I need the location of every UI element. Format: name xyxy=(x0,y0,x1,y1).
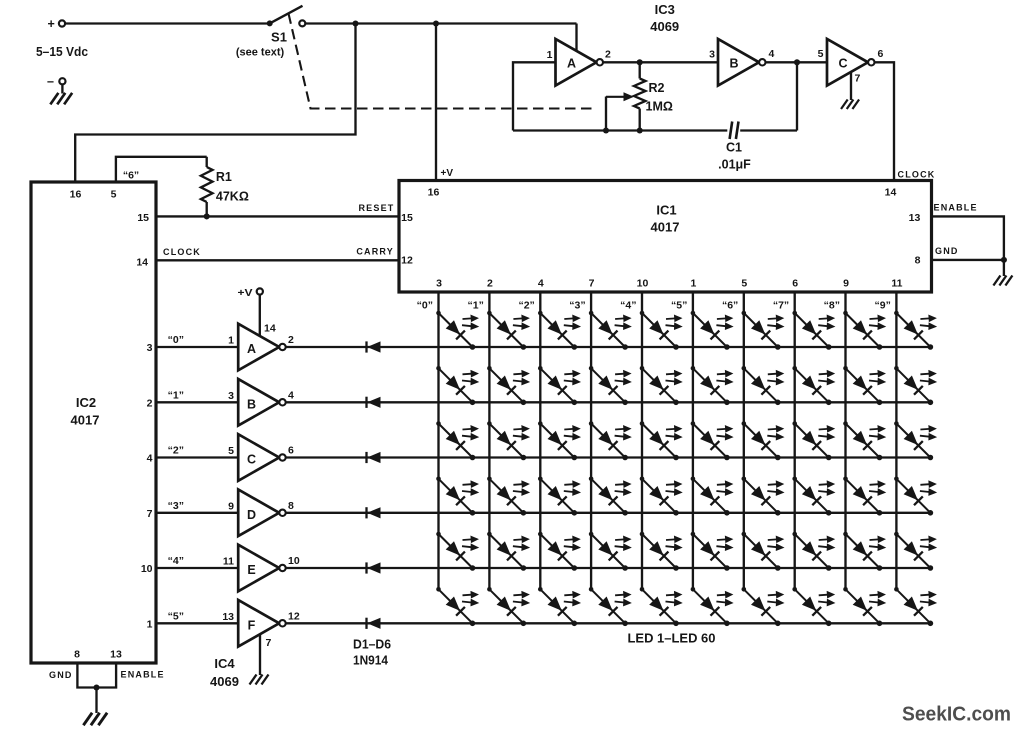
svg-text:RESET: RESET xyxy=(358,203,394,213)
+V terminal (IC4 pin 14) xyxy=(257,288,263,294)
LED 29 (col 8, row C) xyxy=(843,421,885,460)
wire IC2 pin5 to R1 xyxy=(116,157,207,182)
wire IC2 pin 1 to inverter U4F xyxy=(156,622,238,624)
LED 7 (col 6, row A) xyxy=(742,311,784,350)
LED 40 (col 9, row D) xyxy=(894,477,936,516)
wire to IC2 pin 16 xyxy=(75,24,355,183)
LED 20 (col 9, row B) xyxy=(894,366,936,405)
svg-text:15: 15 xyxy=(401,212,413,224)
wire column ‘0’ (IC1 output) xyxy=(437,292,439,589)
svg-text:A: A xyxy=(247,342,256,356)
LED 6 (col 5, row A) xyxy=(691,311,733,350)
LED 59 (col 8, row F) xyxy=(843,587,885,626)
LED 21 (col 0, row C) xyxy=(436,421,478,460)
svg-text:C: C xyxy=(838,56,847,70)
wire column ‘1’ (IC1 output) xyxy=(488,292,490,589)
row wire B (inverter out through diode to LED row) xyxy=(286,401,931,403)
svg-text:1: 1 xyxy=(547,49,553,61)
LED 3 (col 2, row A) xyxy=(538,311,580,350)
svg-text:IC2: IC2 xyxy=(76,395,96,410)
svg-text:“4”: “4” xyxy=(620,300,636,312)
svg-text:14: 14 xyxy=(136,257,148,269)
IC U1 (IC1 4017) body xyxy=(399,181,932,293)
wire CARRY/CLOCK (IC2 pin14 - IC1 pin12) xyxy=(156,259,399,261)
LED 22 (col 1, row C) xyxy=(487,421,529,460)
svg-text:“8”: “8” xyxy=(824,300,840,312)
ground U4F pin 7 xyxy=(259,635,261,675)
svg-text:“1”: “1” xyxy=(468,300,484,312)
wire column ‘5’ (IC1 output) xyxy=(692,292,694,589)
inverter U3B xyxy=(718,39,766,86)
svg-text:4017: 4017 xyxy=(71,413,100,428)
svg-text:14: 14 xyxy=(264,323,276,335)
wire column ‘2’ (IC1 output) xyxy=(539,292,541,589)
svg-text:10: 10 xyxy=(637,278,649,290)
svg-text:4069: 4069 xyxy=(210,674,239,689)
LED 31 (col 0, row D) xyxy=(436,477,478,516)
inverter U3A xyxy=(556,39,604,86)
svg-text:3: 3 xyxy=(228,390,234,402)
LED 14 (col 3, row B) xyxy=(589,366,631,405)
junction IC2 ground xyxy=(93,684,99,690)
svg-text:S1: S1 xyxy=(271,30,287,45)
wire U3A input xyxy=(513,62,556,130)
LED 57 (col 6, row F) xyxy=(742,587,784,626)
switch S1 xyxy=(267,20,273,26)
LED 19 (col 8, row B) xyxy=(843,366,885,405)
LED 15 (col 4, row B) xyxy=(640,366,682,405)
LED 18 (col 7, row B) xyxy=(792,366,834,405)
svg-text:“7”: “7” xyxy=(773,300,789,312)
LED 51 (col 0, row F) xyxy=(436,587,478,626)
row wire E (inverter out through diode to LED row) xyxy=(286,567,931,569)
diode D5 xyxy=(367,562,381,573)
svg-text:2: 2 xyxy=(288,334,294,346)
svg-text:“2”: “2” xyxy=(168,445,184,457)
svg-text:11: 11 xyxy=(223,556,234,568)
svg-text:“5”: “5” xyxy=(671,300,687,312)
diode D4 xyxy=(367,507,381,518)
svg-text:IC4: IC4 xyxy=(214,656,235,671)
svg-text:CARRY: CARRY xyxy=(356,247,394,257)
svg-text:ENABLE: ENABLE xyxy=(121,670,165,680)
svg-text:7: 7 xyxy=(855,73,861,85)
svg-text:LED 1–LED 60: LED 1–LED 60 xyxy=(628,631,716,646)
svg-text:16: 16 xyxy=(70,189,82,201)
junction R2/feedback xyxy=(637,127,643,133)
feedback wire (oscillator) xyxy=(513,129,727,131)
diode D3 xyxy=(367,452,381,463)
LED 8 (col 7, row A) xyxy=(792,311,834,350)
row wire C (inverter out through diode to LED row) xyxy=(286,456,931,458)
svg-text:7: 7 xyxy=(589,278,595,290)
LED 10 (col 9, row A) xyxy=(894,311,936,350)
svg-text:+V: +V xyxy=(441,168,454,179)
junction R1/RESET wire xyxy=(204,213,210,219)
inverter U4B xyxy=(238,379,286,426)
battery + terminal xyxy=(59,20,65,26)
row wire F (inverter out through diode to LED row) xyxy=(286,622,931,624)
svg-text:+: + xyxy=(48,17,55,31)
LED 55 (col 4, row F) xyxy=(640,587,682,626)
svg-text:R1: R1 xyxy=(216,170,232,184)
wire IC2 pin 3 to inverter U4A xyxy=(156,346,238,348)
svg-text:16: 16 xyxy=(428,187,440,199)
svg-text:2: 2 xyxy=(487,278,493,290)
junction switch rail / IC2 supply xyxy=(352,20,358,26)
svg-text:5: 5 xyxy=(741,278,747,290)
wire +V to U4A xyxy=(259,295,261,337)
LED 45 (col 4, row E) xyxy=(640,532,682,571)
wire column ‘3’ (IC1 output) xyxy=(590,292,592,589)
LED 17 (col 6, row B) xyxy=(742,366,784,405)
svg-text:B: B xyxy=(247,397,256,411)
LED 24 (col 3, row C) xyxy=(589,421,631,460)
wire IC2 pin 7 to inverter U4D xyxy=(156,512,238,514)
svg-text:“0”: “0” xyxy=(417,300,433,312)
svg-text:3: 3 xyxy=(436,278,442,290)
svg-text:1: 1 xyxy=(690,278,696,290)
wire column ‘8’ (IC1 output) xyxy=(844,292,846,589)
LED 49 (col 8, row E) xyxy=(843,532,885,571)
svg-text:2: 2 xyxy=(605,49,611,61)
svg-text:4: 4 xyxy=(538,278,544,290)
svg-text:5: 5 xyxy=(818,48,824,60)
svg-text:7: 7 xyxy=(266,637,272,649)
resistor R2 xyxy=(639,62,641,78)
diode D6 xyxy=(367,618,381,629)
LED 12 (col 1, row B) xyxy=(487,366,529,405)
svg-text:“3”: “3” xyxy=(168,500,184,512)
wire IC2 pins 8,13 to ground xyxy=(77,663,116,688)
LED 58 (col 7, row F) xyxy=(792,587,834,626)
svg-text:14: 14 xyxy=(885,187,897,199)
LED 44 (col 3, row E) xyxy=(589,532,631,571)
svg-text:ENABLE: ENABLE xyxy=(934,203,978,213)
LED 50 (col 9, row E) xyxy=(894,532,936,571)
svg-text:+V: +V xyxy=(238,287,253,299)
mechanical link S1-R2 (dashed) xyxy=(289,14,595,109)
svg-text:4069: 4069 xyxy=(650,19,679,34)
wire switch to oscillator xyxy=(306,22,577,24)
svg-text:–: – xyxy=(47,75,54,89)
wire R2 wiper to feedback xyxy=(605,97,607,131)
wire column ‘6’ (IC1 output) xyxy=(743,292,745,589)
diode D1 xyxy=(367,341,381,352)
svg-text:“1”: “1” xyxy=(168,389,184,401)
svg-text:10: 10 xyxy=(288,555,300,567)
svg-text:“6”: “6” xyxy=(722,300,738,312)
LED 33 (col 2, row D) xyxy=(538,477,580,516)
svg-text:D: D xyxy=(247,508,256,522)
svg-text:CLOCK: CLOCK xyxy=(898,170,936,180)
svg-text:1MΩ: 1MΩ xyxy=(646,100,673,114)
LED 28 (col 7, row C) xyxy=(792,421,834,460)
svg-text:6: 6 xyxy=(288,445,294,457)
svg-text:(see text): (see text) xyxy=(236,47,285,59)
svg-text:8: 8 xyxy=(74,649,80,661)
svg-text:4: 4 xyxy=(147,453,153,465)
svg-text:13: 13 xyxy=(909,212,921,224)
wire IC2 pin 4 to inverter U4C xyxy=(156,456,238,458)
wire IC2 pin 10 to inverter U4E xyxy=(156,567,238,569)
LED 5 (col 4, row A) xyxy=(640,311,682,350)
capacitor C1 xyxy=(730,122,733,140)
svg-text:12: 12 xyxy=(288,611,300,623)
svg-text:5: 5 xyxy=(228,445,234,457)
LED 43 (col 2, row E) xyxy=(538,532,580,571)
wire ENABLE IC1 pin 13 xyxy=(932,216,1004,260)
LED 36 (col 5, row D) xyxy=(691,477,733,516)
inverter U3C xyxy=(827,39,875,86)
junction wiper/feedback xyxy=(603,127,609,133)
svg-text:3: 3 xyxy=(147,342,153,354)
LED 16 (col 5, row B) xyxy=(691,366,733,405)
LED 42 (col 1, row E) xyxy=(487,532,529,571)
LED 13 (col 2, row B) xyxy=(538,366,580,405)
svg-text:D1–D6: D1–D6 xyxy=(353,638,391,652)
svg-text:“0”: “0” xyxy=(168,334,184,346)
junction switch rail / IC1 supply xyxy=(433,20,439,26)
LED 53 (col 2, row F) xyxy=(538,587,580,626)
svg-text:4017: 4017 xyxy=(651,220,680,235)
svg-text:1N914: 1N914 xyxy=(353,654,388,668)
svg-text:5: 5 xyxy=(111,189,117,201)
ground IC1 pin 8 xyxy=(1003,260,1005,276)
LED 52 (col 1, row F) xyxy=(487,587,529,626)
svg-text:6: 6 xyxy=(792,278,798,290)
battery - terminal xyxy=(59,78,65,84)
LED 9 (col 8, row A) xyxy=(843,311,885,350)
ground U3C pin 7 xyxy=(850,72,852,101)
LED 46 (col 5, row E) xyxy=(691,532,733,571)
inverter U4D xyxy=(238,490,286,537)
svg-text:13: 13 xyxy=(110,649,122,661)
LED 23 (col 2, row C) xyxy=(538,421,580,460)
junction U3A out / R2 xyxy=(637,59,643,65)
svg-text:IC3: IC3 xyxy=(655,2,675,17)
wire IC2 pin 2 to inverter U4B xyxy=(156,401,238,403)
svg-text:“2”: “2” xyxy=(518,300,534,312)
svg-text:“9”: “9” xyxy=(875,300,891,312)
row wire A (inverter out through diode to LED row) xyxy=(286,346,931,348)
wire clock U3C to IC1 pin 14 xyxy=(875,62,895,180)
junction ENABLE/GND xyxy=(1001,257,1007,263)
LED 48 (col 7, row E) xyxy=(792,532,834,571)
svg-text:12: 12 xyxy=(401,255,413,267)
svg-text:C: C xyxy=(247,453,256,467)
svg-text:E: E xyxy=(247,563,255,577)
svg-text:13: 13 xyxy=(222,611,234,623)
svg-text:47KΩ: 47KΩ xyxy=(216,190,249,204)
svg-text:11: 11 xyxy=(891,278,902,290)
svg-text:6: 6 xyxy=(878,48,884,60)
row wire D (inverter out through diode to LED row) xyxy=(286,512,931,514)
svg-text:2: 2 xyxy=(147,398,153,410)
wire U3A output xyxy=(603,61,718,63)
wire rail to inverter U3A xyxy=(575,24,577,52)
wire +V to IC1 pin 16 xyxy=(435,24,437,181)
wire column ‘7’ (IC1 output) xyxy=(794,292,796,589)
LED 38 (col 7, row D) xyxy=(792,477,834,516)
LED 37 (col 6, row D) xyxy=(742,477,784,516)
LED 1 (col 0, row A) xyxy=(436,311,478,350)
inverter U4E xyxy=(238,545,286,592)
svg-text:GND: GND xyxy=(935,246,959,256)
svg-text:4: 4 xyxy=(769,48,775,60)
diode D2 xyxy=(367,397,381,408)
LED 32 (col 1, row D) xyxy=(487,477,529,516)
svg-text:“3”: “3” xyxy=(569,300,585,312)
LED 39 (col 8, row D) xyxy=(843,477,885,516)
svg-text:IC1: IC1 xyxy=(656,203,676,218)
svg-text:CLOCK: CLOCK xyxy=(163,247,201,257)
svg-text:9: 9 xyxy=(228,500,234,512)
inverter U4A xyxy=(238,324,286,371)
LED 30 (col 9, row C) xyxy=(894,421,936,460)
svg-text:15: 15 xyxy=(137,212,149,224)
inverter U4C xyxy=(238,434,286,481)
wire + rail to switch xyxy=(65,22,267,24)
LED 60 (col 9, row F) xyxy=(894,587,936,626)
svg-text:SeekIC.com: SeekIC.com xyxy=(902,703,1011,726)
svg-text:9: 9 xyxy=(843,278,849,290)
svg-text:GND: GND xyxy=(49,670,73,680)
wire GND IC1 pin 8 xyxy=(932,259,1004,261)
LED 26 (col 5, row C) xyxy=(691,421,733,460)
wire U3B output xyxy=(765,61,827,63)
R2 wiper arrow xyxy=(606,96,624,98)
wire column ‘9’ (IC1 output) xyxy=(895,292,897,589)
inverter U4F xyxy=(238,600,286,647)
svg-text:C1: C1 xyxy=(726,141,742,155)
svg-text:8: 8 xyxy=(288,500,294,512)
svg-text:R2: R2 xyxy=(649,81,665,95)
resistor R1 xyxy=(206,157,208,167)
LED 41 (col 0, row E) xyxy=(436,532,478,571)
LED 11 (col 0, row B) xyxy=(436,366,478,405)
wire column ‘4’ (IC1 output) xyxy=(641,292,643,589)
ground IC2 xyxy=(95,688,97,714)
LED 34 (col 3, row D) xyxy=(589,477,631,516)
LED 56 (col 5, row F) xyxy=(691,587,733,626)
svg-text:A: A xyxy=(567,56,576,70)
svg-text:“5”: “5” xyxy=(168,610,184,622)
svg-text:.01μF: .01μF xyxy=(718,158,751,172)
svg-text:5–15 Vdc: 5–15 Vdc xyxy=(36,44,88,59)
svg-text:“4”: “4” xyxy=(168,555,184,567)
svg-text:“6”: “6” xyxy=(123,170,139,182)
svg-text:10: 10 xyxy=(141,563,153,575)
LED 27 (col 6, row C) xyxy=(742,421,784,460)
wire RESET (IC2 pin15 - IC1 pin15) xyxy=(156,215,399,217)
svg-text:1: 1 xyxy=(147,619,153,631)
LED 47 (col 6, row E) xyxy=(742,532,784,571)
LED 54 (col 3, row F) xyxy=(589,587,631,626)
LED 25 (col 4, row C) xyxy=(640,421,682,460)
IC U2 (IC2 4017) body xyxy=(31,182,156,663)
svg-text:F: F xyxy=(248,618,256,632)
LED 2 (col 1, row A) xyxy=(487,311,529,350)
svg-text:1: 1 xyxy=(228,335,234,347)
junction U3B out / feedback xyxy=(794,59,800,65)
svg-text:8: 8 xyxy=(915,255,921,267)
svg-text:B: B xyxy=(729,56,738,70)
ground (battery negative) xyxy=(61,85,63,94)
LED 4 (col 3, row A) xyxy=(589,311,631,350)
LED 35 (col 4, row D) xyxy=(640,477,682,516)
svg-text:3: 3 xyxy=(709,49,715,61)
svg-text:7: 7 xyxy=(147,508,153,520)
svg-text:4: 4 xyxy=(288,390,294,402)
